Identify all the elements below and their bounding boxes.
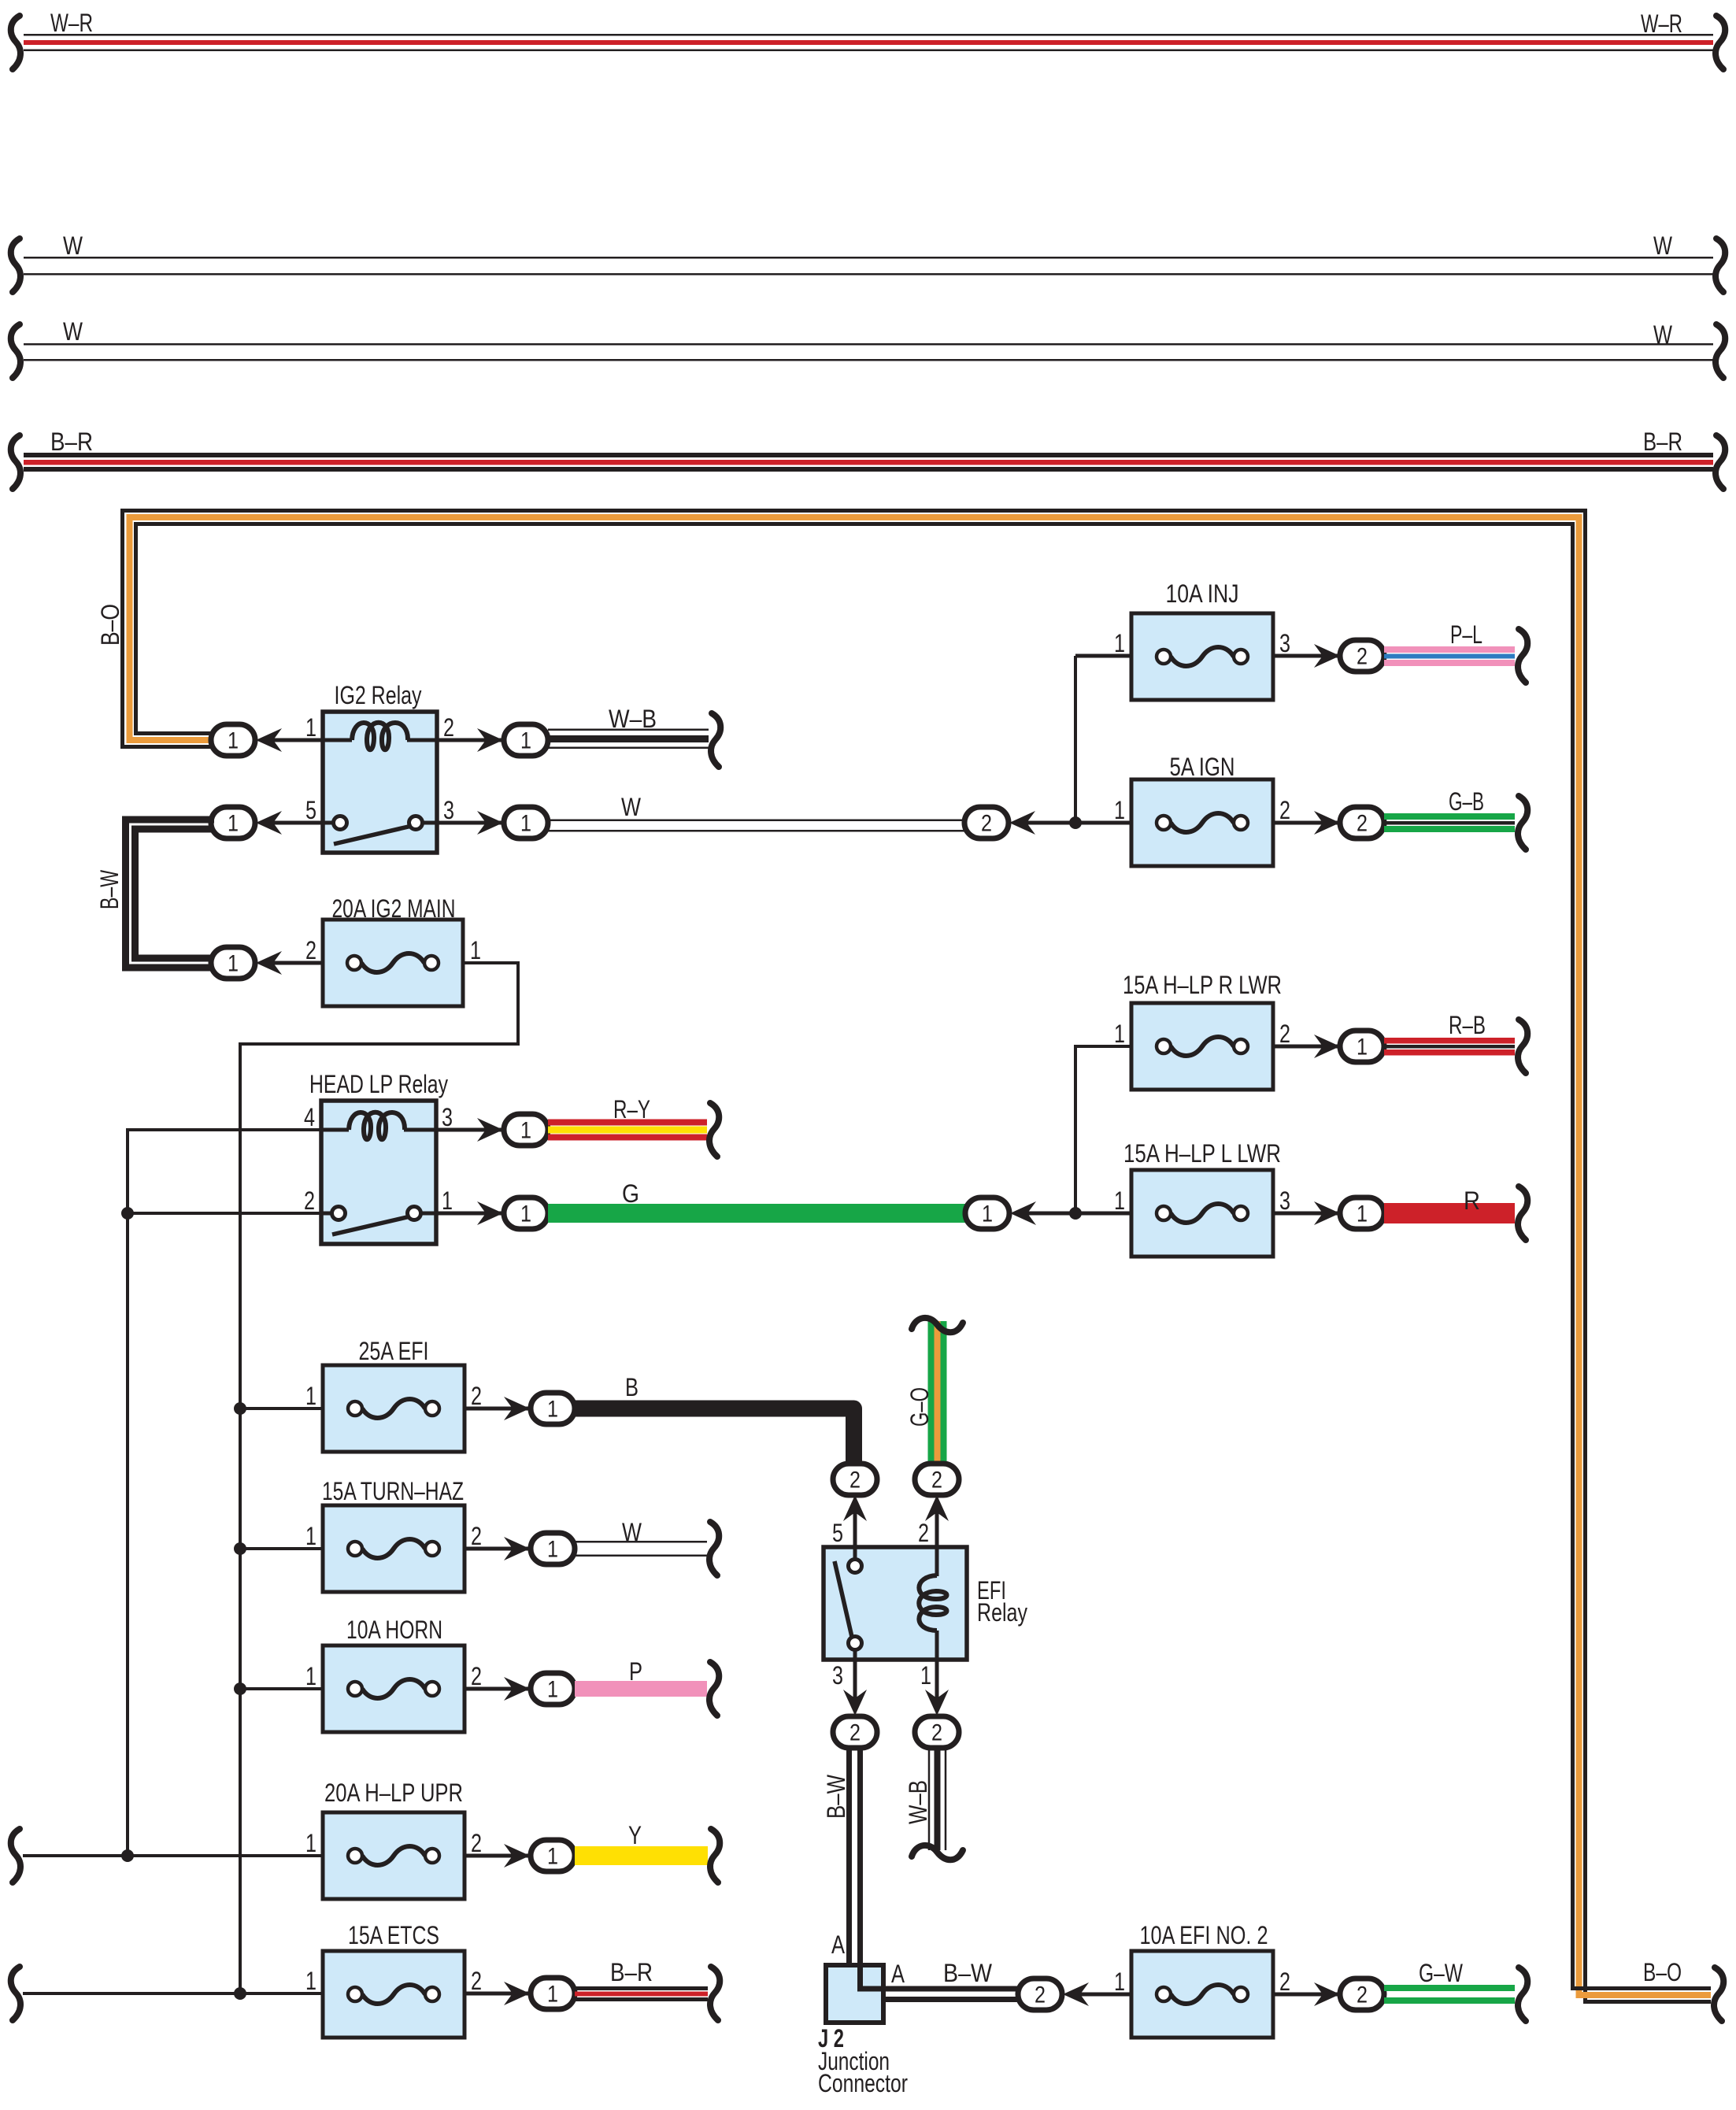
svg-text:2: 2 bbox=[1279, 796, 1290, 824]
break R-B right bbox=[1518, 1020, 1527, 1073]
svg-text:1: 1 bbox=[920, 1661, 931, 1690]
connector oval 1 (H-LP UPR out) bbox=[531, 1840, 575, 1871]
svg-text:2: 2 bbox=[849, 1720, 861, 1746]
break 15A ETCS left bbox=[11, 1967, 20, 2020]
wire W-R top bus bbox=[24, 34, 1713, 51]
connector oval 1 (G wire to L LWR) bbox=[965, 1198, 1009, 1229]
svg-text:1: 1 bbox=[305, 713, 316, 742]
wire G-O bbox=[928, 1321, 947, 1464]
wire W bus 2 bbox=[24, 343, 1713, 361]
break G-B right bbox=[1518, 796, 1527, 850]
fuse 10A EFI NO. 2 bbox=[1131, 1951, 1273, 2038]
svg-text:1: 1 bbox=[547, 1677, 558, 1703]
pin 3 IG2 relay bbox=[443, 796, 454, 824]
label EFI Relay bbox=[977, 1576, 1027, 1627]
arrow into oval (R LWR out) bbox=[1314, 1035, 1340, 1058]
svg-text:3: 3 bbox=[1279, 629, 1290, 657]
connector oval 2 (10A INJ out) bbox=[1340, 640, 1384, 672]
connector oval 2 (EFI relay pin 5 / B wire) bbox=[833, 1464, 877, 1495]
svg-text:W–B: W–B bbox=[904, 1780, 932, 1824]
label P bbox=[629, 1657, 642, 1686]
wire IG2 pin2 to oval bbox=[437, 738, 504, 742]
fuse 15A H-LP R LWR bbox=[1131, 1003, 1273, 1090]
wire 15A ETCS pin 1 bbox=[23, 1992, 323, 1995]
label 15A TURN-HAZ bbox=[322, 1477, 464, 1505]
svg-text:1: 1 bbox=[1114, 796, 1125, 824]
svg-text:5: 5 bbox=[832, 1519, 843, 1547]
wire L LWR pin3 to oval bbox=[1273, 1212, 1341, 1216]
wire 5A IGN pin2 to oval bbox=[1273, 821, 1341, 825]
svg-text:Connector: Connector bbox=[818, 2069, 908, 2097]
label Junction bbox=[818, 2047, 890, 2075]
label B-W (rotated, EFI pin 3) bbox=[822, 1774, 850, 1819]
svg-text:B–R: B–R bbox=[610, 1958, 653, 1986]
svg-text:2: 2 bbox=[1357, 1982, 1368, 2008]
junction dot L LWR pin 1 bbox=[1069, 1207, 1082, 1220]
svg-text:2: 2 bbox=[304, 1186, 315, 1215]
connector oval 2 (5A IGN out) bbox=[1340, 807, 1384, 838]
arrow into oval (HORN out) bbox=[504, 1677, 530, 1701]
connector oval 1 (25A EFI out) bbox=[531, 1393, 575, 1424]
svg-text:1: 1 bbox=[520, 1201, 531, 1227]
svg-text:2: 2 bbox=[471, 1662, 482, 1690]
label W-R left bbox=[50, 9, 93, 37]
label W-R right bbox=[1641, 9, 1682, 38]
svg-text:1: 1 bbox=[228, 728, 239, 754]
pin 2 20A IG2 MAIN bbox=[305, 936, 316, 964]
wire oval to IG2 relay pin 1 bbox=[268, 738, 323, 742]
wire R LWR pin2 to oval bbox=[1273, 1045, 1341, 1049]
label W2 right bbox=[1653, 320, 1673, 349]
svg-text:1: 1 bbox=[1114, 1967, 1125, 1996]
wire HEAD LP pin1 to oval bbox=[436, 1212, 504, 1216]
arrow into oval (25A EFI out) bbox=[504, 1397, 530, 1420]
label G bbox=[622, 1179, 639, 1208]
svg-text:1: 1 bbox=[520, 728, 531, 754]
wire 10A INJ pin 1 bbox=[1075, 654, 1131, 658]
svg-text:1: 1 bbox=[228, 951, 239, 977]
svg-text:2: 2 bbox=[1279, 1020, 1290, 1048]
svg-text:2: 2 bbox=[1279, 1967, 1290, 1996]
arrow down into oval (EFI pin 1) bbox=[925, 1690, 949, 1716]
break W right (TURN-HAZ) bbox=[709, 1522, 719, 1575]
wire B-R (ETCS out) bbox=[575, 1986, 708, 2001]
svg-text:1: 1 bbox=[1357, 1201, 1368, 1227]
svg-text:R–B: R–B bbox=[1449, 1011, 1486, 1039]
pin 1 15A H-LP R LWR bbox=[1114, 1020, 1125, 1048]
junction dot 20A H-LP UPR bbox=[121, 1849, 134, 1862]
label G-O (rotated) bbox=[905, 1387, 934, 1427]
arrow into oval (HEAD LP pin 1) bbox=[477, 1201, 503, 1225]
wire B-W (EFI pin 3 to J2) bbox=[849, 1748, 1023, 1989]
svg-text:2: 2 bbox=[471, 1382, 482, 1410]
pin 1 10A EFI NO. 2 bbox=[1114, 1967, 1125, 1996]
arrow into oval (IG2 pin 1) bbox=[256, 728, 282, 752]
pin A label (J2 right) bbox=[891, 1960, 905, 1988]
label G-W bbox=[1419, 1959, 1464, 1987]
svg-text:R–Y: R–Y bbox=[613, 1095, 650, 1123]
arrow into oval (IG2 pin 3) bbox=[477, 811, 503, 835]
svg-text:1: 1 bbox=[547, 1397, 558, 1423]
svg-text:3: 3 bbox=[832, 1661, 843, 1690]
svg-text:1: 1 bbox=[1114, 1186, 1125, 1215]
junction dot at 5A IGN pin 1 bbox=[1069, 816, 1082, 829]
svg-text:2: 2 bbox=[849, 1468, 861, 1494]
break R right bbox=[1518, 1186, 1527, 1240]
pin 2 15A ETCS bbox=[471, 1967, 482, 1995]
svg-text:20A H–LP UPR: 20A H–LP UPR bbox=[324, 1779, 463, 1807]
break G-O top bbox=[912, 1318, 963, 1332]
pin 3 15A H-LP L LWR bbox=[1279, 1186, 1290, 1215]
fuse 10A HORN bbox=[323, 1645, 465, 1732]
pin 1 5A IGN bbox=[1114, 796, 1125, 824]
svg-text:1: 1 bbox=[1114, 1020, 1125, 1048]
break W-R left bbox=[11, 16, 20, 69]
label B bbox=[625, 1373, 639, 1401]
svg-text:Relay: Relay bbox=[977, 1598, 1027, 1627]
label W (middle wire) bbox=[621, 793, 642, 821]
arrow into oval (IG2 MAIN pin 2) bbox=[256, 951, 282, 975]
wire 20A IG2 MAIN pin1 feed to fuse column bbox=[240, 963, 518, 1993]
label 20A IG2 MAIN bbox=[332, 894, 456, 923]
wire H-LP UPR pin2 to oval bbox=[465, 1854, 531, 1858]
label B-O bottom right bbox=[1643, 1958, 1682, 1986]
wire B-O loop bbox=[123, 511, 1712, 2002]
connector oval 1 (20A IG2 MAIN pin 2) bbox=[211, 947, 255, 979]
svg-text:1: 1 bbox=[1114, 629, 1125, 657]
wire HORN pin2 to oval bbox=[465, 1687, 531, 1691]
svg-text:2: 2 bbox=[471, 1829, 482, 1857]
pin 2 15A H-LP R LWR bbox=[1279, 1020, 1290, 1048]
junction dot 15A TURN-HAZ bbox=[234, 1542, 246, 1555]
label B-R (ETCS) bbox=[610, 1958, 653, 1986]
svg-text:Y: Y bbox=[628, 1821, 642, 1849]
svg-text:G–O: G–O bbox=[905, 1387, 934, 1427]
label W (TURN-HAZ) bbox=[622, 1518, 642, 1546]
label B-O left (rotated) bbox=[96, 604, 124, 646]
label 15A ETCS bbox=[348, 1921, 439, 1949]
pin 2 10A HORN bbox=[471, 1662, 482, 1690]
svg-text:1: 1 bbox=[228, 811, 239, 837]
svg-text:2: 2 bbox=[931, 1468, 942, 1494]
svg-text:W: W bbox=[622, 1518, 642, 1546]
wire G-W bbox=[1384, 1985, 1515, 2004]
connector oval 1 (HORN out) bbox=[531, 1673, 575, 1705]
label 15A H-LP R LWR bbox=[1123, 971, 1282, 999]
fuse 15A TURN-HAZ bbox=[323, 1505, 465, 1592]
connector oval 2 (B-W to 10A EFI NO.2) bbox=[1018, 1979, 1062, 2010]
svg-text:B–O: B–O bbox=[96, 604, 124, 646]
pin 1 20A IG2 MAIN bbox=[470, 936, 481, 964]
fuse 25A EFI bbox=[323, 1365, 465, 1452]
wire P-L bbox=[1384, 646, 1515, 666]
junction dot 15A ETCS bbox=[234, 1987, 246, 2000]
break W1 left bbox=[11, 239, 20, 292]
break W2 right bbox=[1716, 324, 1725, 378]
svg-text:1: 1 bbox=[442, 1186, 453, 1215]
connector oval 1 (IG2 relay pin 5, B-W side) bbox=[211, 807, 255, 838]
label B-W (J2 to fuse) bbox=[943, 1959, 993, 1987]
wire oval to 10A EFI NO.2 pin 1 bbox=[1075, 1993, 1131, 1997]
arrow into oval (H-LP UPR out) bbox=[504, 1844, 530, 1868]
label W-B (rotated, EFI pin 1) bbox=[904, 1780, 932, 1824]
label P-L bbox=[1450, 620, 1482, 649]
junction connector J2 bbox=[826, 1965, 883, 2023]
arrow up into oval (EFI pin 2) bbox=[925, 1495, 949, 1521]
junction dot 10A HORN bbox=[234, 1682, 246, 1695]
label 20A H-LP UPR bbox=[324, 1779, 463, 1807]
break B-R left bbox=[11, 435, 20, 489]
wire W bus 1 bbox=[24, 257, 1713, 276]
svg-text:1: 1 bbox=[470, 936, 481, 964]
svg-text:2: 2 bbox=[1357, 811, 1368, 837]
svg-text:W: W bbox=[63, 231, 83, 260]
pin 3 10A INJ bbox=[1279, 629, 1290, 657]
pin 1 10A INJ bbox=[1114, 629, 1125, 657]
wire B (thick black to EFI relay) bbox=[575, 1409, 854, 1464]
svg-text:B–W: B–W bbox=[822, 1774, 850, 1819]
wire oval to EFI relay pin 5 bbox=[853, 1507, 857, 1547]
pin 1 EFI relay bbox=[920, 1661, 931, 1690]
pin 3 EFI relay bbox=[832, 1661, 843, 1690]
pin 2 HEAD LP bbox=[304, 1186, 315, 1215]
svg-text:1: 1 bbox=[1357, 1035, 1368, 1061]
break W-R right bbox=[1716, 16, 1725, 69]
break W-B right bbox=[711, 713, 720, 767]
junction dot HEAD LP pin 2 bbox=[121, 1207, 134, 1220]
svg-text:1: 1 bbox=[305, 1382, 316, 1410]
pin 1 20A H-LP UPR bbox=[305, 1829, 316, 1857]
label Y bbox=[628, 1821, 642, 1849]
fuse 20A H-LP UPR bbox=[323, 1812, 465, 1899]
break Y right bbox=[710, 1829, 720, 1882]
svg-text:1: 1 bbox=[520, 1118, 531, 1144]
wire G-B bbox=[1384, 813, 1515, 832]
label R-B bbox=[1449, 1011, 1486, 1039]
svg-text:W: W bbox=[63, 317, 83, 346]
connector oval 1 (L LWR out) bbox=[1340, 1198, 1384, 1229]
svg-text:2: 2 bbox=[1035, 1982, 1046, 2008]
svg-text:2: 2 bbox=[305, 936, 316, 964]
connector oval 1 (IG2 pin 2 out) bbox=[504, 724, 548, 756]
pin 2 IG2 relay bbox=[443, 713, 454, 742]
svg-text:A: A bbox=[831, 1930, 846, 1959]
wire oval to EFI relay pin 2 bbox=[935, 1507, 939, 1547]
svg-text:2: 2 bbox=[981, 811, 992, 837]
label 15A H-LP L LWR bbox=[1123, 1139, 1281, 1168]
relay EFI Relay bbox=[824, 1547, 967, 1660]
break W-B bottom bbox=[912, 1845, 963, 1860]
pin 1 15A H-LP L LWR bbox=[1114, 1186, 1125, 1215]
wire oval to L LWR pin 1 bbox=[1022, 1212, 1131, 1216]
svg-text:1: 1 bbox=[305, 1967, 316, 1995]
pin 4 HEAD LP bbox=[304, 1103, 315, 1131]
pin 1 25A EFI bbox=[305, 1382, 316, 1410]
wire oval 2 to 5A IGN pin 1 bbox=[1021, 821, 1131, 825]
svg-text:1: 1 bbox=[547, 1844, 558, 1870]
break B-R right (ETCS) bbox=[710, 1967, 720, 2020]
wire oval to IG2 relay pin 5 bbox=[268, 821, 323, 825]
label 10A INJ bbox=[1166, 579, 1239, 608]
label R bbox=[1464, 1186, 1480, 1215]
fuse 20A IG2 MAIN bbox=[323, 920, 463, 1006]
svg-text:2: 2 bbox=[443, 713, 454, 742]
break B-R right bbox=[1716, 435, 1725, 489]
break P-L right bbox=[1518, 629, 1527, 683]
svg-text:G: G bbox=[622, 1179, 639, 1208]
connector oval 1 (ETCS out) bbox=[531, 1978, 575, 2009]
pin A label (J2 top) bbox=[831, 1930, 846, 1959]
label W1 right bbox=[1653, 231, 1673, 260]
svg-text:B–W: B–W bbox=[95, 869, 124, 909]
arrow up into oval (EFI pin 5) bbox=[843, 1495, 867, 1521]
arrow down into oval (EFI pin 3) bbox=[843, 1690, 867, 1716]
connector oval 2 (EFI pin 1 out) bbox=[915, 1716, 959, 1748]
svg-text:2: 2 bbox=[931, 1720, 942, 1746]
break R-Y right bbox=[709, 1103, 719, 1157]
wire IG2 pin3 to oval bbox=[437, 821, 504, 825]
junction dot 25A EFI bbox=[234, 1402, 246, 1415]
svg-text:1: 1 bbox=[982, 1201, 993, 1227]
svg-text:G–W: G–W bbox=[1419, 1959, 1464, 1987]
wire W from IG2 pin3 oval to oval 2 bbox=[548, 820, 965, 832]
svg-text:25A EFI: 25A EFI bbox=[359, 1337, 429, 1365]
svg-text:2: 2 bbox=[918, 1519, 929, 1547]
svg-text:W: W bbox=[621, 793, 642, 821]
connector oval 2 (EFI relay pin 2 / G-O) bbox=[915, 1464, 959, 1495]
connector oval 2 (EFI NO.2 out) bbox=[1340, 1979, 1384, 2010]
svg-text:4: 4 bbox=[304, 1103, 315, 1131]
wire 15A TURN-HAZ pin 1 bbox=[240, 1547, 323, 1550]
wire P bbox=[575, 1681, 707, 1697]
svg-text:2: 2 bbox=[471, 1967, 482, 1995]
svg-text:B: B bbox=[625, 1373, 639, 1401]
relay IG2 Relay bbox=[323, 712, 437, 853]
svg-text:G–B: G–B bbox=[1449, 787, 1484, 816]
wire R-Y bbox=[548, 1120, 707, 1141]
arrow into oval (10A INJ out) bbox=[1314, 644, 1340, 668]
wire R-B bbox=[1384, 1038, 1515, 1056]
wire 25A EFI pin 1 bbox=[240, 1407, 323, 1410]
fuse 10A INJ bbox=[1131, 613, 1273, 700]
pin 5 EFI relay bbox=[832, 1519, 843, 1547]
label 10A HORN bbox=[346, 1616, 442, 1644]
svg-text:1: 1 bbox=[520, 811, 531, 837]
label 5A IGN bbox=[1170, 753, 1235, 781]
pin 2 25A EFI bbox=[471, 1382, 482, 1410]
pin 2 5A IGN bbox=[1279, 796, 1290, 824]
label W2 left bbox=[63, 317, 83, 346]
pin 2 20A H-LP UPR bbox=[471, 1829, 482, 1857]
svg-text:15A H–LP R LWR: 15A H–LP R LWR bbox=[1123, 971, 1282, 999]
svg-text:2: 2 bbox=[1357, 644, 1368, 670]
svg-text:W–R: W–R bbox=[1641, 9, 1682, 38]
break P right bbox=[709, 1662, 719, 1716]
arrow into oval (L LWR out) bbox=[1314, 1201, 1340, 1225]
connector oval 2 (W wire to 5A IGN) bbox=[964, 807, 1009, 838]
svg-text:B–R: B–R bbox=[50, 428, 93, 456]
relay HEAD LP Relay bbox=[321, 1101, 436, 1244]
svg-text:10A INJ: 10A INJ bbox=[1166, 579, 1239, 608]
svg-text:W–B: W–B bbox=[609, 705, 657, 733]
label W1 left bbox=[63, 231, 83, 260]
svg-text:3: 3 bbox=[442, 1103, 453, 1131]
svg-text:15A H–LP L LWR: 15A H–LP L LWR bbox=[1123, 1139, 1281, 1168]
wire 10A HORN pin 1 bbox=[240, 1687, 323, 1690]
label R-Y bbox=[613, 1095, 650, 1123]
svg-text:10A HORN: 10A HORN bbox=[346, 1616, 442, 1644]
wire EFI NO.2 pin2 to oval bbox=[1273, 1993, 1341, 1997]
connector oval 1 (R LWR out) bbox=[1340, 1031, 1384, 1062]
svg-text:P–L: P–L bbox=[1450, 620, 1482, 649]
label 10A EFI NO. 2 bbox=[1140, 1921, 1268, 1949]
svg-text:1: 1 bbox=[305, 1522, 316, 1550]
label J 2 bbox=[818, 2024, 844, 2053]
arrow into oval (TURN-HAZ out) bbox=[504, 1537, 530, 1560]
pin 2 15A TURN-HAZ bbox=[471, 1522, 482, 1550]
connector oval 1 (HEAD LP pin 1 out) bbox=[504, 1198, 548, 1229]
wire vertical 5A IGN to 10A INJ bbox=[1074, 656, 1077, 823]
svg-text:W–R: W–R bbox=[50, 9, 93, 37]
connector oval 1 (IG2 pin 3 out) bbox=[504, 807, 548, 838]
svg-text:B–R: B–R bbox=[1643, 428, 1682, 456]
wire R bbox=[1384, 1203, 1515, 1223]
svg-text:B–W: B–W bbox=[943, 1959, 993, 1987]
label B-R right bbox=[1643, 428, 1682, 456]
arrow into oval (ETCS out) bbox=[504, 1982, 530, 2005]
pin 3 HEAD LP bbox=[442, 1103, 453, 1131]
svg-text:5A IGN: 5A IGN bbox=[1170, 753, 1235, 781]
pin 1 IG2 relay bbox=[305, 713, 316, 742]
pin 1 10A HORN bbox=[305, 1662, 316, 1690]
wire HEAD LP pin 4 feed bbox=[128, 1130, 321, 1856]
wire G (to 15A H-LP L LWR) bbox=[548, 1204, 967, 1223]
connector oval 2 (EFI pin 3 out) bbox=[833, 1716, 877, 1748]
break 20A H-LP UPR left bbox=[11, 1829, 20, 1882]
wire HEAD LP pin3 to oval bbox=[436, 1128, 504, 1132]
svg-text:B–O: B–O bbox=[1643, 1958, 1682, 1986]
wire B-W bottom stroke from J2 bbox=[883, 1997, 1022, 2002]
wire HEAD LP pin 2 from junction bbox=[128, 1212, 321, 1215]
svg-text:W: W bbox=[1653, 320, 1673, 349]
connector oval 1 (TURN-HAZ out) bbox=[531, 1533, 575, 1564]
label Connector bbox=[818, 2069, 908, 2097]
svg-text:20A IG2 MAIN: 20A IG2 MAIN bbox=[332, 894, 456, 923]
label B-W left (rotated) bbox=[95, 869, 124, 909]
svg-text:3: 3 bbox=[443, 796, 454, 824]
wire B-W loop left bbox=[126, 820, 215, 968]
arrow into oval (EFI NO.2 out) bbox=[1314, 1982, 1340, 2006]
pin 1 HEAD LP bbox=[442, 1186, 453, 1215]
pin 1 15A TURN-HAZ bbox=[305, 1522, 316, 1550]
arrow into oval (5A IGN out) bbox=[1314, 811, 1340, 835]
svg-text:5: 5 bbox=[305, 796, 316, 824]
label W-B bbox=[609, 705, 657, 733]
break W1 right bbox=[1716, 239, 1725, 292]
svg-text:HEAD LP Relay: HEAD LP Relay bbox=[309, 1070, 448, 1098]
connector oval 1 (IG2 relay pin 1, B-O side) bbox=[211, 724, 255, 756]
arrow into oval (HEAD LP pin 3) bbox=[477, 1118, 503, 1142]
arrow into oval (IG2 pin 2) bbox=[477, 728, 503, 752]
arrow into oval (IG2 pin 5) bbox=[256, 811, 282, 835]
svg-text:2: 2 bbox=[471, 1522, 482, 1550]
wire 15A H-LP R LWR pin 1 feed bbox=[1075, 1046, 1131, 1213]
svg-text:R: R bbox=[1464, 1186, 1480, 1215]
connector oval 1 (HEAD LP pin 3 out) bbox=[504, 1114, 548, 1146]
wire oval to 20A IG2 MAIN pin 2 bbox=[268, 961, 323, 965]
wire TURN-HAZ pin2 to oval bbox=[465, 1547, 531, 1551]
svg-text:1: 1 bbox=[547, 1982, 558, 2008]
